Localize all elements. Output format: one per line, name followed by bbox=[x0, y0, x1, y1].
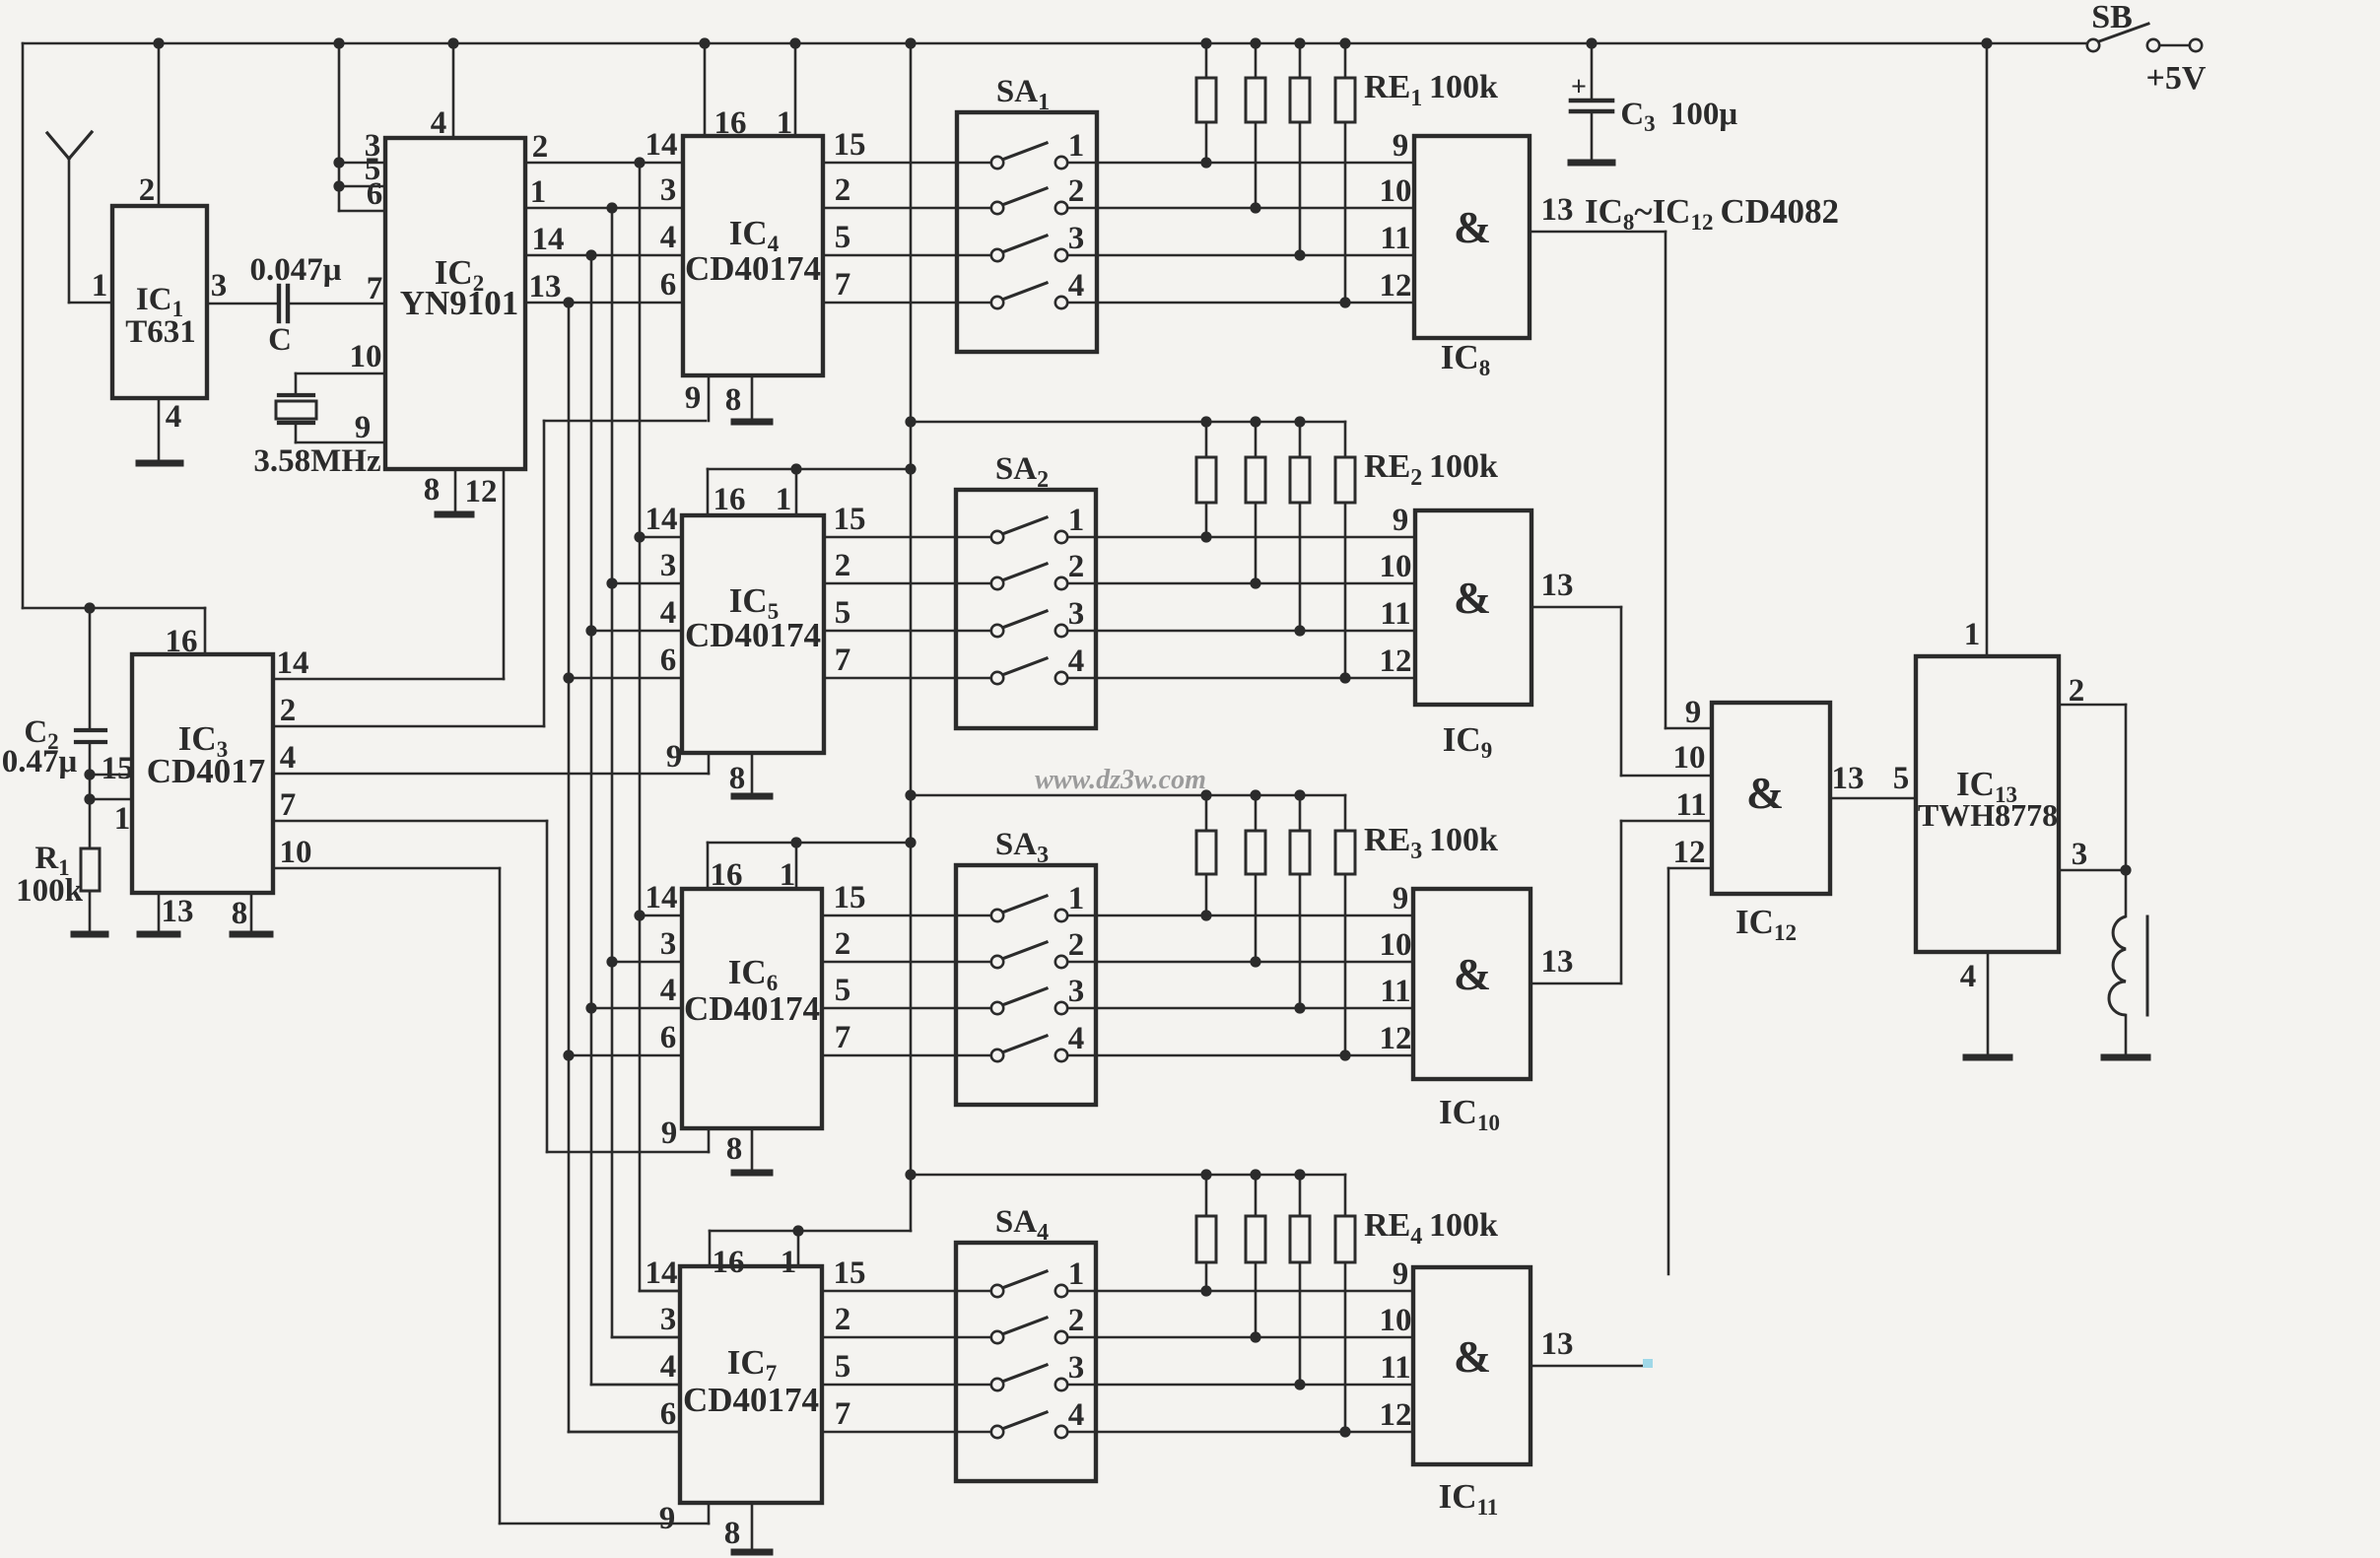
svg-text:13: 13 bbox=[1832, 761, 1865, 796]
svg-text:7: 7 bbox=[835, 1396, 851, 1432]
svg-text:12: 12 bbox=[465, 474, 498, 509]
svg-text:15: 15 bbox=[834, 127, 866, 163]
svg-text:2: 2 bbox=[835, 1302, 851, 1337]
svg-text:1: 1 bbox=[92, 268, 108, 304]
svg-text:TWH8778: TWH8778 bbox=[1918, 797, 2058, 833]
svg-text:4: 4 bbox=[280, 740, 297, 776]
svg-text:15: 15 bbox=[834, 1255, 866, 1291]
svg-text:2: 2 bbox=[1068, 1303, 1085, 1338]
svg-text:RE2 100k: RE2 100k bbox=[1364, 448, 1498, 491]
svg-text:7: 7 bbox=[835, 643, 851, 678]
svg-text:14: 14 bbox=[646, 502, 678, 537]
svg-text:C: C bbox=[268, 322, 292, 358]
svg-text:7: 7 bbox=[280, 787, 297, 823]
svg-text:8: 8 bbox=[424, 472, 441, 508]
svg-text:12: 12 bbox=[1380, 1397, 1412, 1433]
svg-text:14: 14 bbox=[532, 222, 565, 257]
svg-text:T631: T631 bbox=[125, 314, 196, 350]
svg-text:1: 1 bbox=[530, 174, 547, 210]
svg-text:1: 1 bbox=[781, 1245, 797, 1280]
svg-text:2: 2 bbox=[280, 693, 297, 728]
svg-text:16: 16 bbox=[166, 624, 198, 659]
svg-text:3: 3 bbox=[660, 1302, 677, 1337]
svg-text:8: 8 bbox=[232, 896, 248, 931]
svg-text:5: 5 bbox=[835, 973, 851, 1008]
svg-text:10: 10 bbox=[280, 835, 312, 870]
svg-text:6: 6 bbox=[660, 267, 677, 303]
svg-text:1: 1 bbox=[1068, 503, 1085, 538]
svg-text:www.dz3w.com: www.dz3w.com bbox=[1035, 765, 1206, 795]
svg-text:CD40174: CD40174 bbox=[685, 249, 821, 288]
svg-text:10: 10 bbox=[1673, 740, 1706, 776]
svg-text:+5V: +5V bbox=[2146, 60, 2207, 97]
svg-text:9: 9 bbox=[1393, 128, 1409, 164]
svg-text:1: 1 bbox=[777, 105, 793, 141]
svg-text:9: 9 bbox=[1393, 503, 1409, 538]
svg-text:14: 14 bbox=[646, 127, 678, 163]
svg-text:10: 10 bbox=[350, 339, 382, 374]
svg-text:4: 4 bbox=[1068, 268, 1085, 304]
svg-text:9: 9 bbox=[659, 1501, 676, 1536]
svg-text:&: & bbox=[1454, 1331, 1491, 1382]
svg-text:2: 2 bbox=[835, 548, 851, 583]
svg-text:3: 3 bbox=[1068, 1350, 1085, 1386]
svg-text:10: 10 bbox=[1380, 927, 1412, 963]
svg-text:+: + bbox=[1571, 72, 1587, 102]
svg-text:1: 1 bbox=[776, 482, 792, 517]
svg-text:3: 3 bbox=[660, 548, 677, 583]
svg-text:13: 13 bbox=[529, 269, 562, 305]
svg-text:1: 1 bbox=[1964, 617, 1981, 652]
svg-text:3: 3 bbox=[1068, 596, 1085, 632]
svg-text:3: 3 bbox=[660, 172, 677, 208]
svg-text:6: 6 bbox=[660, 1020, 677, 1055]
svg-text:CD40174: CD40174 bbox=[685, 616, 821, 654]
svg-text:3: 3 bbox=[660, 926, 677, 962]
svg-text:13: 13 bbox=[1541, 568, 1574, 603]
svg-text:1: 1 bbox=[1068, 128, 1085, 164]
svg-text:9: 9 bbox=[661, 1116, 678, 1151]
svg-text:&: & bbox=[1454, 573, 1491, 623]
svg-text:10: 10 bbox=[1380, 1303, 1412, 1338]
svg-text:2: 2 bbox=[1068, 173, 1085, 209]
svg-text:10: 10 bbox=[1380, 173, 1412, 209]
svg-text:5: 5 bbox=[1893, 761, 1910, 796]
svg-text:RE4 100k: RE4 100k bbox=[1364, 1207, 1498, 1250]
svg-text:10: 10 bbox=[1380, 549, 1412, 584]
svg-text:8: 8 bbox=[724, 1516, 741, 1551]
svg-text:3: 3 bbox=[1068, 221, 1085, 256]
svg-text:15: 15 bbox=[102, 751, 134, 786]
svg-text:11: 11 bbox=[1675, 787, 1706, 823]
svg-text:100k: 100k bbox=[16, 873, 84, 909]
svg-text:RE3 100k: RE3 100k bbox=[1364, 822, 1498, 864]
svg-text:1: 1 bbox=[114, 801, 131, 837]
svg-text:3: 3 bbox=[211, 268, 228, 304]
svg-text:3: 3 bbox=[1068, 974, 1085, 1009]
svg-text:12: 12 bbox=[1380, 268, 1412, 304]
svg-text:4: 4 bbox=[1068, 644, 1085, 679]
svg-text:4: 4 bbox=[1068, 1397, 1085, 1433]
svg-text:8: 8 bbox=[726, 1131, 743, 1167]
svg-text:4: 4 bbox=[431, 105, 447, 141]
svg-text:7: 7 bbox=[367, 271, 383, 306]
svg-text:5: 5 bbox=[835, 220, 851, 255]
svg-text:13: 13 bbox=[1541, 1326, 1574, 1362]
svg-text:9: 9 bbox=[1393, 881, 1409, 916]
svg-text:&: & bbox=[1454, 949, 1491, 999]
svg-text:14: 14 bbox=[646, 880, 678, 915]
svg-text:2: 2 bbox=[1068, 927, 1085, 963]
svg-text:7: 7 bbox=[835, 1020, 851, 1055]
svg-text:8: 8 bbox=[725, 382, 742, 418]
svg-text:13: 13 bbox=[162, 894, 194, 929]
svg-text:9: 9 bbox=[1393, 1256, 1409, 1292]
svg-text:&: & bbox=[1454, 202, 1491, 252]
svg-text:16: 16 bbox=[713, 1245, 745, 1280]
svg-text:3.58MHz: 3.58MHz bbox=[253, 443, 380, 479]
svg-text:15: 15 bbox=[834, 502, 866, 537]
svg-text:11: 11 bbox=[1380, 596, 1410, 632]
svg-text:12: 12 bbox=[1380, 1021, 1412, 1056]
svg-text:RE1 100k: RE1 100k bbox=[1364, 69, 1498, 111]
svg-text:6: 6 bbox=[660, 643, 677, 678]
svg-text:CD4017: CD4017 bbox=[147, 752, 266, 790]
svg-text:11: 11 bbox=[1380, 221, 1410, 256]
svg-text:13: 13 bbox=[1541, 192, 1574, 228]
svg-text:1: 1 bbox=[1068, 1256, 1085, 1292]
svg-text:YN9101: YN9101 bbox=[400, 284, 519, 322]
svg-text:9: 9 bbox=[355, 410, 372, 445]
svg-text:9: 9 bbox=[666, 739, 683, 775]
svg-text:6: 6 bbox=[660, 1396, 677, 1432]
svg-text:4: 4 bbox=[660, 1349, 677, 1385]
svg-text:16: 16 bbox=[714, 482, 746, 517]
svg-text:1: 1 bbox=[1068, 881, 1085, 916]
svg-text:CD40174: CD40174 bbox=[683, 1381, 819, 1419]
svg-text:13: 13 bbox=[1541, 944, 1574, 980]
svg-text:100μ: 100μ bbox=[1670, 97, 1738, 132]
svg-text:14: 14 bbox=[277, 645, 309, 681]
svg-text:4: 4 bbox=[660, 595, 677, 631]
svg-text:4: 4 bbox=[660, 220, 677, 255]
svg-text:14: 14 bbox=[646, 1255, 678, 1291]
svg-text:1: 1 bbox=[780, 857, 796, 893]
svg-text:&: & bbox=[1746, 768, 1784, 818]
svg-text:9: 9 bbox=[685, 380, 702, 416]
svg-text:4: 4 bbox=[660, 973, 677, 1008]
svg-text:4: 4 bbox=[1068, 1021, 1085, 1056]
svg-text:2: 2 bbox=[532, 129, 549, 165]
svg-text:2: 2 bbox=[835, 172, 851, 208]
svg-text:7: 7 bbox=[835, 267, 851, 303]
svg-text:6: 6 bbox=[367, 176, 383, 212]
svg-text:2: 2 bbox=[139, 172, 156, 208]
svg-text:4: 4 bbox=[1960, 959, 1977, 994]
svg-text:11: 11 bbox=[1380, 974, 1410, 1009]
svg-text:4: 4 bbox=[166, 399, 182, 435]
svg-text:9: 9 bbox=[1685, 695, 1702, 730]
svg-text:2: 2 bbox=[2069, 673, 2085, 709]
svg-text:11: 11 bbox=[1380, 1350, 1410, 1386]
svg-text:0.47μ: 0.47μ bbox=[2, 744, 78, 779]
svg-text:15: 15 bbox=[834, 880, 866, 915]
svg-text:CD40174: CD40174 bbox=[684, 989, 820, 1028]
svg-text:16: 16 bbox=[711, 857, 743, 893]
svg-text:5: 5 bbox=[835, 1349, 851, 1385]
svg-text:5: 5 bbox=[835, 595, 851, 631]
svg-text:2: 2 bbox=[1068, 549, 1085, 584]
svg-text:12: 12 bbox=[1673, 835, 1706, 870]
svg-text:2: 2 bbox=[835, 926, 851, 962]
svg-text:16: 16 bbox=[714, 105, 747, 141]
svg-text:SB: SB bbox=[2091, 0, 2133, 35]
svg-text:8: 8 bbox=[729, 761, 746, 796]
svg-text:3: 3 bbox=[2072, 837, 2088, 872]
svg-text:0.047μ: 0.047μ bbox=[250, 252, 342, 288]
svg-text:12: 12 bbox=[1380, 644, 1412, 679]
